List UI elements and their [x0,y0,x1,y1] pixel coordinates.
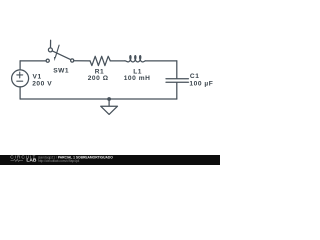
wire [19,61,21,70]
V1 minus sign [17,80,23,82]
SW1 right terminal pin [71,59,74,62]
V1 plus sign [17,72,23,78]
CircuitLab logo [10,155,37,164]
SW1 actuation arrow [55,45,59,57]
resistor R1 [90,56,110,65]
capacitor C1 [166,79,188,82]
SW1 upper throw pin [48,48,52,52]
svg-text:200 V: 200 V [32,81,52,88]
wire [110,60,125,62]
ground [101,99,118,114]
wire [145,60,176,62]
node junction [107,97,111,101]
wire [74,60,90,62]
svg-text:C1: C1 [190,73,200,80]
voltage source V1 [12,70,29,87]
footer bar [0,155,220,165]
wire [176,83,178,99]
svg-text:http://circuitlab.com/c/9ap4p4: http://circuitlab.com/c/9ap4p4 [38,159,80,163]
svg-text:100 µF: 100 µF [189,81,213,88]
SW1 left terminal pin [46,59,49,62]
wire [20,98,177,100]
svg-text:100 mH: 100 mH [124,75,151,82]
wire [19,87,21,99]
SW1 blade [52,51,70,60]
svg-text:SW1: SW1 [53,68,69,75]
wire [176,61,178,78]
svg-text:V1: V1 [33,73,42,80]
svg-text:200 Ω: 200 Ω [88,75,109,82]
wire [20,60,46,62]
inductor L1 [125,56,145,62]
switch SW1 [46,40,74,62]
svg-text:LAB: LAB [26,158,37,164]
SW1 upper stub wire [50,40,52,48]
